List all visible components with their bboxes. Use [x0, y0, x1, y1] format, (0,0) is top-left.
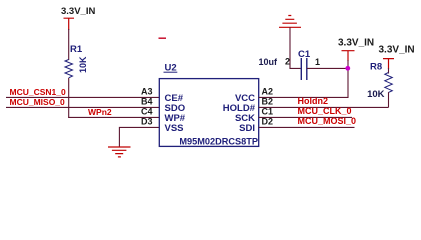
- net MCU_MISO_0: [10, 97, 66, 107]
- stray dash mark: [159, 37, 167, 39]
- svg-text:MCU_MISO_0: MCU_MISO_0: [10, 97, 66, 107]
- ground (left, below VSS): [108, 147, 131, 157]
- resistor R8: [367, 62, 392, 101]
- wire P3 to R8: [388, 68, 390, 74]
- svg-text:1: 1: [315, 57, 320, 67]
- net WPn2: [88, 107, 112, 117]
- svg-text:MCU_MOSI_0: MCU_MOSI_0: [298, 116, 357, 126]
- wire SDI row: [259, 126, 355, 128]
- svg-text:A2: A2: [262, 87, 274, 97]
- svg-text:VSS: VSS: [165, 123, 184, 134]
- power symbol 3.3V_IN (P2, above junction): [338, 38, 374, 62]
- svg-text:2: 2: [285, 57, 290, 67]
- svg-text:C1: C1: [262, 107, 274, 117]
- svg-text:MCU_CLK_0: MCU_CLK_0: [298, 106, 352, 116]
- wire VSS row: [119, 127, 159, 146]
- svg-text:C1: C1: [298, 49, 311, 60]
- junction dot: [345, 66, 350, 71]
- net MCU_CSN1_0: [10, 87, 66, 97]
- wire R1 to WPn2 row: [68, 78, 70, 117]
- power symbol 3.3V_IN (P1, top-left): [61, 6, 95, 30]
- wire top ground to C1 pin2: [290, 27, 301, 68]
- wire WP# row: [68, 116, 159, 118]
- wire HOLD# row to R8: [259, 106, 389, 108]
- svg-text:10K: 10K: [367, 89, 385, 100]
- svg-text:D3: D3: [141, 117, 153, 127]
- svg-text:B4: B4: [141, 97, 153, 107]
- svg-text:A3: A3: [141, 87, 153, 97]
- power symbol 3.3V_IN (P3, above R8): [379, 44, 415, 69]
- wire C1 pin1 to junction: [307, 67, 348, 69]
- svg-text:R1: R1: [70, 44, 83, 55]
- svg-text:MCU_CSN1_0: MCU_CSN1_0: [10, 87, 66, 97]
- net MCU_CLK_0: [298, 106, 352, 116]
- wire P1 to R1: [68, 29, 70, 60]
- wire P2 down through junction to VCC row: [259, 60, 348, 97]
- wire CE# row: [6, 96, 159, 98]
- svg-text:D2: D2: [262, 117, 274, 127]
- svg-text:R8: R8: [370, 62, 382, 73]
- svg-text:10uf: 10uf: [259, 57, 279, 67]
- svg-text:WPn2: WPn2: [88, 107, 112, 117]
- svg-text:3.3V_IN: 3.3V_IN: [61, 6, 95, 17]
- net MCU_MOSI_0: [298, 116, 357, 126]
- svg-text:C4: C4: [141, 107, 153, 117]
- svg-text:SDI: SDI: [239, 123, 255, 134]
- net Holdn2: [298, 96, 329, 106]
- ground (top, inverted): [279, 16, 301, 28]
- svg-text:B2: B2: [262, 97, 274, 107]
- capacitor C1: [259, 49, 321, 80]
- svg-text:3.3V_IN: 3.3V_IN: [338, 38, 374, 49]
- wire SDO row: [6, 106, 159, 108]
- IC U2: [159, 63, 258, 147]
- svg-text:M95M02DRCS8TP: M95M02DRCS8TP: [179, 137, 258, 147]
- svg-text:3.3V_IN: 3.3V_IN: [379, 44, 415, 55]
- svg-text:Holdn2: Holdn2: [298, 96, 329, 106]
- svg-text:10K: 10K: [78, 56, 88, 73]
- wire R8 to Holdn2 row: [388, 92, 390, 107]
- resistor R1: [65, 44, 88, 78]
- wire SCK row: [259, 116, 352, 118]
